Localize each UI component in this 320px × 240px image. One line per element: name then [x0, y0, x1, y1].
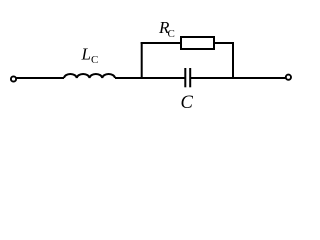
- svg-text:L: L: [81, 45, 91, 64]
- svg-text:C: C: [168, 28, 175, 40]
- svg-text:C: C: [91, 54, 98, 66]
- svg-text:C: C: [181, 93, 194, 113]
